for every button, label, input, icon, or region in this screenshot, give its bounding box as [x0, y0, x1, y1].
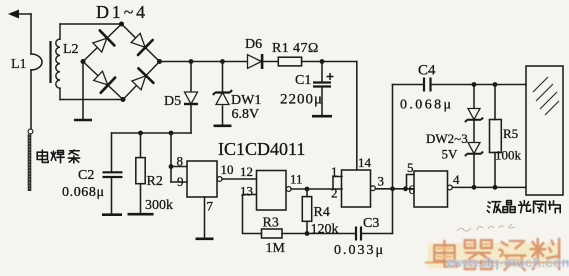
- ground (DW1): [214, 125, 232, 128]
- node: timing node: [305, 231, 310, 236]
- wire: L2 bottom to bridge bottom node: [60, 99, 123, 101]
- label 电焊条: [37, 150, 79, 163]
- wire: gate3 out to gate4 in: [376, 188, 408, 190]
- node: R5 column bottom: [493, 185, 498, 190]
- svg-text:C4: C4: [418, 63, 436, 79]
- svg-text:D1~4: D1~4: [96, 2, 148, 22]
- svg-text:DW1: DW1: [231, 93, 261, 108]
- svg-text:12: 12: [240, 164, 253, 179]
- wire: pin 7 to ground: [204, 197, 206, 238]
- svg-text:R2: R2: [147, 174, 163, 189]
- zener DW2: [465, 85, 483, 143]
- wire: pin 9 stub: [171, 181, 187, 183]
- bridge diode D2 (top-right edge): [128, 30, 152, 55]
- wire: pins 5,6 tie: [407, 175, 415, 189]
- svg-text:R5: R5: [503, 126, 518, 141]
- output bubble pin 11: [286, 187, 291, 192]
- svg-text:120k: 120k: [311, 222, 339, 237]
- wire: D5 to input row: [190, 105, 192, 134]
- svg-text:R4: R4: [314, 205, 330, 220]
- node: bridge top: [119, 22, 124, 27]
- watermark logo 电器资料: [0, 0, 1, 1]
- inductor L1 (cable loop): [31, 14, 42, 129]
- svg-text:www.dq-much.com: www.dq-much.com: [445, 254, 569, 270]
- svg-text:5: 5: [407, 160, 414, 175]
- wire: rail to D5: [190, 62, 192, 92]
- node: bridge right: [157, 59, 162, 64]
- resistor R5: [490, 85, 502, 188]
- svg-text:6.8V: 6.8V: [232, 107, 260, 122]
- LCD light valve panel: [526, 66, 563, 195]
- zener DW3: [465, 143, 483, 188]
- op-amp gate U1a (CD4011 pins 8,9 -> 10): [187, 161, 217, 197]
- svg-text:2200μ: 2200μ: [280, 92, 323, 108]
- svg-text:D6: D6: [245, 37, 262, 52]
- output bubble pin 10: [217, 177, 222, 182]
- wire: bridge left node to ground: [82, 62, 84, 120]
- wire: input column to pins 8,9: [170, 133, 172, 182]
- svg-text:11: 11: [290, 172, 303, 187]
- wire: gate2 out to gate3 in: [291, 188, 333, 190]
- svg-text:C3: C3: [363, 216, 379, 231]
- svg-text:C2: C2: [78, 168, 94, 183]
- capacitor C1 (electrolytic): [313, 62, 331, 116]
- node: D5 tap: [189, 59, 194, 64]
- ground (R2): [128, 213, 154, 216]
- resistor R4: [302, 189, 311, 234]
- node: R4 tap: [305, 187, 310, 192]
- wire: pin 8 stub: [171, 166, 187, 168]
- resistor R1: [278, 57, 301, 66]
- capacitor C4: [393, 78, 527, 92]
- svg-text:DW2~3: DW2~3: [426, 131, 468, 146]
- diode D6: [248, 54, 263, 69]
- node: gate4 input tap: [403, 186, 408, 191]
- node: R2 tap: [138, 131, 143, 136]
- welding electrode (电焊条): [28, 134, 32, 191]
- svg-text:100k: 100k: [495, 148, 522, 163]
- node: zener column bottom: [472, 185, 477, 190]
- ground (bridge negative): [74, 119, 92, 122]
- svg-text:9: 9: [177, 174, 184, 189]
- node: C4/C3 column junction: [390, 186, 395, 191]
- svg-text:R1 47Ω: R1 47Ω: [272, 41, 319, 56]
- node: gate input tap: [169, 131, 174, 136]
- svg-text:IC1CD4011: IC1CD4011: [218, 139, 305, 159]
- resistor R2: [136, 133, 145, 214]
- faint pencil note: [457, 224, 515, 231]
- wire: R1 to rail corner: [302, 61, 357, 63]
- capacitor C3: [356, 227, 393, 241]
- svg-text:0.033μ: 0.033μ: [334, 243, 385, 258]
- svg-text:R3: R3: [263, 216, 279, 231]
- svg-text:5V: 5V: [442, 147, 459, 162]
- wire: C4 column (down to C3 row): [392, 85, 394, 234]
- svg-text:L1: L1: [11, 57, 27, 72]
- svg-text:1: 1: [331, 164, 338, 179]
- svg-text:10: 10: [221, 162, 234, 177]
- resistor R3: [262, 229, 283, 238]
- wire: pins 1,2 tie: [333, 177, 342, 190]
- bridge rectifier D1~D4 : frame: [83, 24, 160, 100]
- svg-text:8: 8: [177, 154, 184, 169]
- wire: R3 to timing node: [282, 233, 356, 235]
- svg-text:300k: 300k: [145, 198, 173, 213]
- output bubble pin 3: [371, 186, 376, 191]
- transformer core: [49, 41, 51, 83]
- node: zener column top: [472, 82, 477, 87]
- op-amp gate U1d (pins 5,6 -> 4): [414, 171, 448, 207]
- arrow to welding machine: [8, 10, 31, 19]
- wire: sense row: [112, 132, 192, 134]
- wire: rail to DW1: [222, 62, 224, 92]
- label + (C1 polarity): [327, 73, 334, 80]
- svg-text:0.068μ: 0.068μ: [400, 98, 453, 113]
- diode D5: [184, 92, 198, 104]
- svg-text:4: 4: [453, 172, 460, 187]
- svg-text:2: 2: [331, 186, 338, 201]
- wire: gate4 out to LCD: [452, 186, 526, 188]
- svg-text:D5: D5: [164, 94, 181, 109]
- svg-text:0.068μ: 0.068μ: [62, 185, 105, 200]
- node: bridge bottom: [121, 97, 126, 102]
- svg-text:C1: C1: [295, 73, 311, 88]
- wire: pin 13 feedback: [243, 195, 262, 234]
- node: bridge left: [81, 59, 86, 64]
- node: electrode holder connector: [28, 129, 33, 134]
- winding L2: [56, 24, 60, 100]
- svg-text:3: 3: [378, 174, 385, 189]
- svg-text:1M: 1M: [266, 241, 286, 256]
- node: DW1 tap: [220, 59, 225, 64]
- capacitor C2: [103, 133, 123, 214]
- wire: gate1 out to gate2 pin 12: [222, 178, 257, 180]
- bridge diode D4 (bottom-right edge): [129, 68, 154, 92]
- node: R5 column top: [493, 82, 498, 87]
- ground (C1): [312, 115, 332, 118]
- node: C1 tap: [320, 59, 325, 64]
- node: pin8 branch: [169, 164, 174, 169]
- wire: rail down to pin 14: [356, 62, 358, 171]
- svg-text:14: 14: [358, 155, 372, 170]
- output bubble pin 4: [448, 185, 453, 190]
- label 液晶光阀片: [487, 201, 560, 213]
- svg-text:L2: L2: [63, 42, 79, 57]
- op-amp gate U1b (pins 12,13 -> 11): [257, 171, 287, 211]
- zener DW1: [213, 90, 232, 105]
- wire: D6 to R1: [263, 61, 279, 63]
- ground (pin 7): [196, 238, 214, 241]
- bridge diode D1 (left-top edge): [90, 30, 114, 55]
- bridge diode D3 (left-bottom edge): [91, 68, 115, 93]
- svg-text:7: 7: [207, 199, 214, 214]
- wire: L2 top to bridge top node: [60, 23, 122, 25]
- wire: positive rail from bridge right node: [160, 61, 248, 63]
- op-amp gate U1c (pins 1,2 -> 3): [342, 170, 371, 207]
- wire: DW1 to ground: [222, 106, 224, 125]
- ground (C2): [102, 213, 122, 216]
